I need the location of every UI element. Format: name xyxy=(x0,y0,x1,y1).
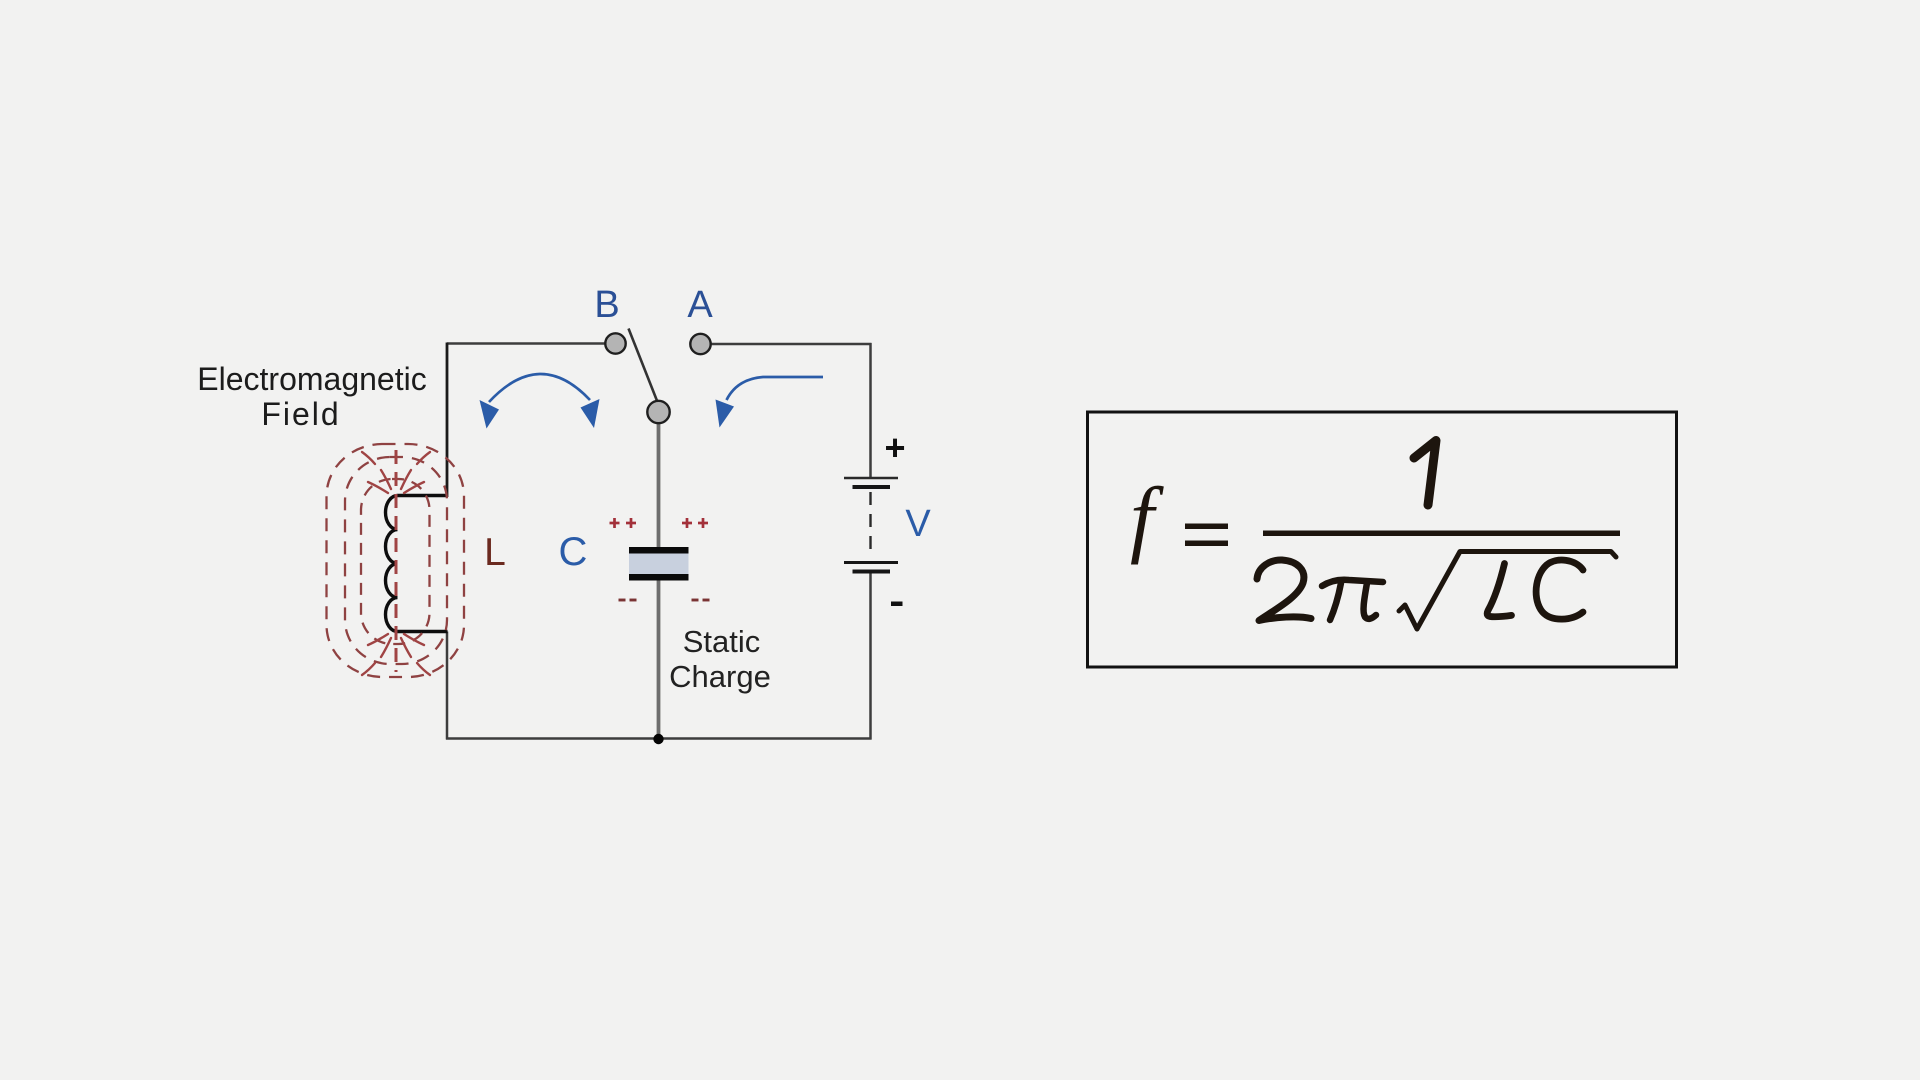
switch arm xyxy=(629,329,658,403)
arrowhead of right arrow xyxy=(716,400,735,428)
field flare top xyxy=(362,452,430,493)
formula denominator L xyxy=(1487,564,1511,617)
wire right (bottom, below battery) xyxy=(869,572,872,740)
wire right (top, above battery) xyxy=(869,343,872,478)
field line loop middle xyxy=(345,457,447,664)
capacitor C dielectric xyxy=(629,554,689,575)
formula box frame xyxy=(1088,412,1677,667)
field line loop inner xyxy=(361,479,430,644)
battery dashed middle xyxy=(869,492,871,558)
formula denominator C xyxy=(1536,560,1583,619)
arrow oscillation left (double headed arc) xyxy=(489,374,590,402)
wire center (capacitor to bottom) xyxy=(657,580,661,739)
svg-text:L: L xyxy=(484,531,506,574)
plus charges left of capacitor xyxy=(610,518,637,528)
field line loop outer xyxy=(327,444,465,677)
label - terminal xyxy=(891,602,903,607)
plus charges right of capacitor xyxy=(682,518,708,528)
arrowhead right of arc xyxy=(581,399,600,428)
battery V short plate (lower cell) xyxy=(853,570,891,574)
switch terminal A contact xyxy=(690,334,710,354)
switch terminal B contact xyxy=(605,333,625,353)
switch pivot contact xyxy=(647,401,669,423)
minus charges left below capacitor xyxy=(619,599,637,602)
formula denominator pi xyxy=(1322,580,1383,586)
wire top-left segment xyxy=(447,342,606,345)
svg-text:A: A xyxy=(687,284,713,326)
svg-text:C: C xyxy=(559,530,588,574)
svg-text:Static: Static xyxy=(683,624,761,659)
wire center (switch pole to capacitor) xyxy=(657,422,661,548)
svg-text:Charge: Charge xyxy=(669,659,771,694)
wire left (top part above inductor) xyxy=(446,343,449,498)
svg-text:Electromagnetic: Electromagnetic xyxy=(197,361,426,397)
minus charges right below capacitor xyxy=(692,599,710,602)
formula denominator 2 xyxy=(1257,560,1311,621)
wire left (bottom part below inductor) xyxy=(446,632,449,740)
svg-text:+: + xyxy=(884,427,905,468)
svg-text:B: B xyxy=(594,284,619,326)
formula equals sign xyxy=(1185,524,1228,530)
capacitor C top plate xyxy=(629,547,689,554)
battery V long plate (lower cell) xyxy=(844,561,898,564)
arrow current right (curved with head) xyxy=(727,377,824,400)
node junction dot xyxy=(653,734,663,744)
capacitor C bottom plate xyxy=(629,574,689,581)
formula fraction bar xyxy=(1263,531,1620,537)
svg-text:Field: Field xyxy=(261,396,340,432)
formula numerator 1 xyxy=(1414,441,1436,506)
wire bottom segment xyxy=(446,737,872,740)
svg-text:V: V xyxy=(905,503,931,545)
formula radical sign xyxy=(1399,552,1616,630)
field flare bottom xyxy=(362,634,430,675)
wire top-right segment xyxy=(711,343,872,346)
arrowhead left of arc xyxy=(480,400,500,429)
inductor L coil xyxy=(386,496,448,632)
field axis line through coil xyxy=(395,450,398,672)
battery V positive long plate xyxy=(844,477,898,480)
battery V short plate (upper cell) xyxy=(853,485,891,489)
